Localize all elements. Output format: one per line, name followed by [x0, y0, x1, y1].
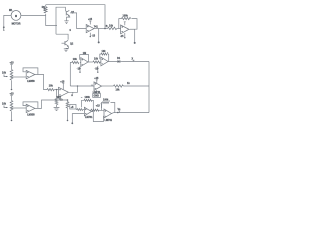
label net X	[132, 57, 135, 61]
svg-text:100k: 100k	[123, 14, 129, 17]
diode D1	[117, 57, 123, 63]
wire U10 out up to sum wire	[69, 86, 78, 92]
svg-text:10k: 10k	[94, 58, 99, 61]
tick above U5 feedback	[81, 97, 82, 99]
wire U4 out up to setline	[35, 100, 68, 108]
svg-text:LM358: LM358	[27, 80, 35, 83]
U8 power stub bottom	[95, 66, 99, 73]
svg-text:LM741: LM741	[105, 119, 113, 122]
svg-text:LM358: LM358	[27, 114, 35, 117]
svg-text:B: B	[106, 25, 108, 28]
wire R1 branch	[46, 5, 57, 26]
wire R12 to U8	[99, 61, 102, 63]
wire U2 feedback loop	[119, 19, 137, 30]
transistor Q2	[65, 40, 74, 47]
U1 power stub bottom	[90, 33, 96, 38]
junction dot sum	[77, 85, 79, 87]
node dot out	[134, 42, 136, 44]
wire Q2 base	[62, 42, 65, 44]
wire R11 to U7	[79, 62, 82, 64]
svg-text:10k: 10k	[109, 24, 114, 27]
pot RV2	[2, 93, 14, 122]
long wire mid row to U9	[70, 85, 94, 87]
junction rail drop	[104, 28, 106, 30]
svg-text:10k: 10k	[2, 103, 7, 106]
label Vo	[118, 108, 121, 113]
U6 power stub top	[96, 104, 103, 108]
svg-text:+15: +15	[9, 62, 14, 65]
input ticks U9	[91, 85, 92, 86]
resistor R6 vertical	[66, 99, 69, 121]
wire Q1 emitter to ground	[67, 16, 71, 21]
wire U6 out to right edge	[112, 112, 150, 115]
ground G1	[64, 21, 68, 24]
tick on U10 out	[71, 92, 73, 97]
wire U6 feedback loop	[102, 103, 115, 113]
svg-text:1M: 1M	[83, 52, 86, 55]
wire RV2 wiper to U4	[12, 107, 27, 109]
ground G2	[64, 49, 68, 52]
terminal J1	[3, 26, 5, 31]
op-amp U1	[86, 25, 98, 33]
op-amp U10	[59, 87, 69, 97]
wire U7 feedback box	[80, 55, 89, 62]
wire U5 out to U6 path	[91, 112, 104, 122]
svg-text:+15: +15	[9, 93, 14, 96]
input resistor R11 mid	[70, 58, 79, 86]
resistor R13 feedback	[101, 52, 108, 55]
resistor R7 in	[77, 109, 83, 111]
resistor R3 feedback	[122, 14, 131, 19]
wire box to R7	[75, 109, 78, 111]
U7 power stub bottom	[77, 66, 81, 73]
svg-text:10k: 10k	[73, 58, 78, 61]
wire U7 out to R12	[88, 61, 93, 63]
svg-text:10k: 10k	[116, 89, 121, 92]
wire U8 feedback box	[100, 54, 109, 61]
wire U9 out to R14	[102, 85, 114, 87]
resistor R9 in	[91, 109, 99, 111]
wire Q1 collector to U1 input	[70, 13, 86, 29]
svg-text:LM741: LM741	[93, 91, 101, 94]
wire U5 feedback box	[82, 100, 94, 111]
wire motor left to terminal	[4, 15, 11, 26]
resistor R10 feedback	[103, 98, 110, 103]
ground G3	[54, 107, 60, 110]
wire U1 out to R2	[94, 28, 108, 30]
resistor R1	[42, 6, 47, 13]
wire motor return to Q2 collector	[56, 34, 68, 40]
test point drop TP1	[98, 29, 100, 44]
transistor Q1	[66, 10, 75, 16]
resistor R2	[108, 24, 117, 29]
wire R14 to right edge	[123, 85, 149, 87]
op-amp U9	[94, 82, 102, 91]
wire drive vertical	[56, 7, 65, 34]
wire U8 out to right edge	[108, 61, 149, 63]
U2 power stub bottom	[120, 22, 126, 39]
svg-text:+15: +15	[88, 18, 93, 21]
U1 power stub top	[89, 21, 91, 25]
wire U3 out down to R4	[35, 75, 47, 90]
resistor R12	[93, 58, 100, 63]
svg-text:100k: 100k	[103, 98, 109, 101]
resistor R4	[47, 85, 54, 91]
svg-text:+15: +15	[96, 105, 101, 108]
top rail wire	[46, 5, 105, 29]
wire U4 feedback box	[23, 102, 38, 109]
svg-text:10k: 10k	[49, 85, 54, 88]
svg-text:M: M	[15, 15, 17, 18]
svg-text:10k: 10k	[2, 72, 7, 75]
wire RV1 wiper to U3	[12, 76, 27, 78]
wire R4 to U10	[54, 89, 58, 91]
op-amp U7	[81, 58, 88, 67]
op-amp U3 buffer	[26, 70, 35, 82]
svg-text:MOTOR: MOTOR	[12, 22, 21, 25]
op-amp U5	[84, 107, 93, 119]
svg-text:GND: GND	[94, 95, 100, 98]
U10 power stub top	[60, 80, 65, 89]
op-amp U6	[104, 109, 113, 122]
op-amp U4 buffer	[26, 104, 35, 116]
wire R2 to U2	[117, 28, 121, 30]
U5 plus input wire from below	[71, 114, 84, 125]
wire motor right to R1	[21, 14, 46, 16]
op-amp U2	[121, 25, 129, 34]
svg-text:A: A	[71, 94, 73, 97]
resistor R8 feedback	[84, 96, 92, 101]
svg-text:100k: 100k	[85, 96, 91, 99]
junction node R5	[56, 89, 57, 90]
wire U2 out down to node	[129, 29, 135, 42]
wire U3 feedback box	[23, 68, 38, 75]
pot RV1	[2, 62, 14, 91]
junction dot out6	[117, 112, 119, 114]
value box VB1	[70, 105, 76, 110]
op-amp U8	[101, 57, 108, 66]
svg-text:741: 741	[94, 25, 99, 28]
svg-text:10k: 10k	[102, 50, 107, 53]
svg-text:SET: SET	[57, 96, 62, 99]
stub label setline	[57, 96, 62, 100]
net frame N1	[93, 90, 101, 97]
wire Q2 emitter to ground	[66, 46, 68, 49]
motor M1	[9, 9, 21, 26]
resistor R5 to ground	[55, 90, 63, 108]
wire U6 minus resistor	[90, 109, 92, 111]
resistor R14	[114, 85, 124, 92]
U9 power stub top	[94, 77, 99, 84]
right edge bus wire	[148, 62, 150, 113]
svg-text:LM741: LM741	[85, 116, 93, 119]
